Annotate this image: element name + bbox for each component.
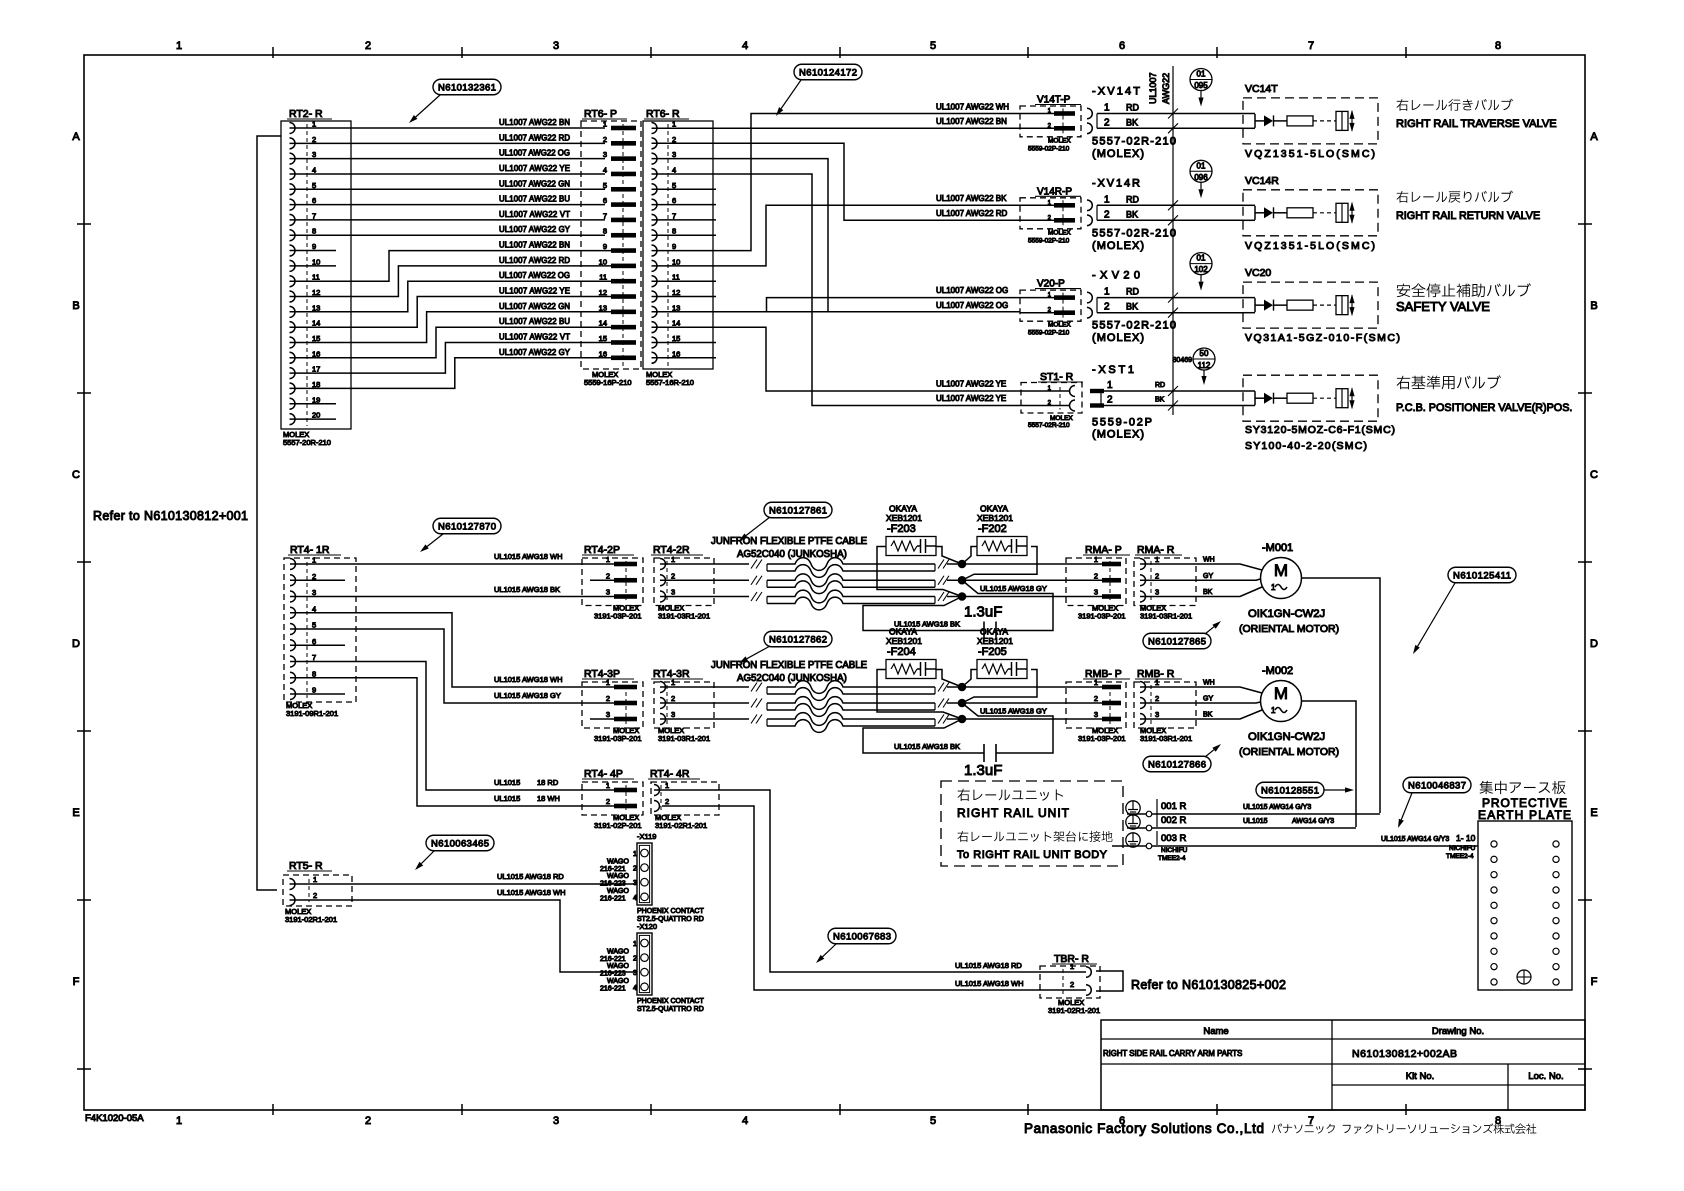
svg-text:N610127866: N610127866 — [1148, 759, 1206, 770]
svg-text:RMB- P: RMB- P — [1085, 668, 1122, 680]
RT6-R pin16 stub — [652, 357, 717, 359]
right rail unit label — [957, 789, 1070, 820]
svg-text:UL1007 AWG22 GY: UL1007 AWG22 GY — [499, 225, 571, 234]
ground wire 001 R — [1126, 799, 1380, 817]
cable wire at y=687 — [660, 686, 749, 688]
svg-text:V20-P: V20-P — [1037, 279, 1065, 290]
svg-text:-F204: -F204 — [887, 646, 916, 658]
svg-text:1.3uF: 1.3uF — [964, 604, 1002, 621]
filter -F202 — [977, 504, 1027, 556]
svg-text:OKAYA: OKAYA — [980, 504, 1008, 514]
svg-text:VC14R: VC14R — [1245, 175, 1279, 187]
svg-text:4: 4 — [742, 40, 748, 52]
svg-text:ST2.5-QUATTRO RD: ST2.5-QUATTRO RD — [637, 1006, 704, 1013]
protective earth plate — [1478, 781, 1572, 990]
svg-text:WH: WH — [1203, 680, 1215, 687]
svg-text:MOLEX: MOLEX — [1048, 137, 1071, 144]
svg-text:3191-02R1-201: 3191-02R1-201 — [1048, 1006, 1100, 1015]
svg-text:4: 4 — [672, 165, 676, 174]
svg-text:VQZ1351-5LO(SMC): VQZ1351-5LO(SMC) — [1245, 148, 1375, 160]
svg-text:Name: Name — [1203, 1026, 1228, 1037]
svg-text:1: 1 — [672, 120, 676, 129]
cable wire at y=580.25 — [660, 579, 749, 581]
wire RT5-R pin2 to X120 — [290, 900, 638, 972]
svg-text:N610067683: N610067683 — [833, 931, 891, 942]
svg-text:E: E — [72, 807, 79, 819]
svg-text:BK: BK — [1155, 397, 1165, 404]
svg-text:1: 1 — [1155, 555, 1159, 564]
svg-text:F: F — [73, 976, 80, 988]
oval N610128551 — [1256, 782, 1324, 798]
svg-text:216-221: 216-221 — [600, 866, 626, 873]
svg-text:11: 11 — [312, 273, 320, 282]
wire RT2 shell to RT5-R — [257, 136, 281, 890]
oval N610046837 — [1403, 777, 1471, 793]
valve name — [1396, 191, 1540, 222]
svg-text:P.C.B. POSITIONER VALVE(R)POS.: P.C.B. POSITIONER VALVE(R)POS. — [1396, 402, 1572, 414]
svg-text:2: 2 — [1094, 694, 1098, 703]
svg-text:VC14T: VC14T — [1245, 83, 1278, 95]
svg-text:2: 2 — [633, 866, 637, 873]
valve name — [1396, 375, 1572, 414]
svg-text:OIK1GN-CW2J: OIK1GN-CW2J — [1248, 731, 1325, 743]
svg-text:UL1015 AWG18 GY: UL1015 AWG18 GY — [980, 584, 1047, 593]
RT4-2P stub pin — [590, 579, 614, 581]
border frame — [84, 55, 1585, 1110]
svg-text:3: 3 — [312, 588, 316, 597]
svg-text:(ORIENTAL MOTOR): (ORIENTAL MOTOR) — [1239, 746, 1339, 758]
svg-text:3: 3 — [1094, 588, 1098, 597]
svg-text:RD: RD — [1126, 287, 1139, 297]
wires RT2 pins11-18 to RT6-P pins9-16 — [290, 251, 612, 282]
svg-text:5: 5 — [672, 181, 676, 190]
svg-text:UL1007 AWG22 VT: UL1007 AWG22 VT — [499, 332, 570, 341]
svg-text:5557-02R-210: 5557-02R-210 — [1028, 422, 1070, 429]
svg-text:MOLEX: MOLEX — [1050, 415, 1073, 422]
RT4-3P stub pin — [590, 718, 614, 720]
svg-text:RT2- R: RT2- R — [289, 108, 323, 120]
svg-text:OKAYA: OKAYA — [889, 627, 917, 637]
svg-text:14: 14 — [312, 319, 320, 328]
svg-text:10: 10 — [312, 257, 320, 266]
RT2-R pin19 stub — [290, 403, 337, 405]
svg-text:10: 10 — [672, 257, 680, 266]
title block — [1101, 1020, 1585, 1110]
connector V20-P — [1020, 279, 1081, 337]
svg-text:6: 6 — [312, 196, 316, 205]
svg-text:(MOLEX): (MOLEX) — [1092, 148, 1144, 160]
svg-text:18: 18 — [312, 380, 320, 389]
svg-text:N610127870: N610127870 — [438, 521, 496, 532]
svg-text:9: 9 — [603, 242, 607, 251]
connector RMA- P — [1066, 544, 1130, 621]
wire RT4-1R pin3 to RT4-2P pin3 — [290, 596, 614, 598]
cable wire at y=719 — [660, 718, 749, 720]
svg-text:4: 4 — [633, 985, 637, 992]
svg-text:3: 3 — [606, 710, 610, 719]
svg-text:RIGHT RAIL TRAVERSE VALVE: RIGHT RAIL TRAVERSE VALVE — [1396, 118, 1557, 130]
svg-text:3191-03R1-201: 3191-03R1-201 — [658, 734, 710, 743]
svg-text:112: 112 — [1198, 361, 1211, 370]
svg-text:UL1007 AWG22 YE: UL1007 AWG22 YE — [499, 164, 570, 173]
svg-text:M: M — [1274, 684, 1288, 703]
footer company — [1024, 1121, 1536, 1136]
svg-text:(MOLEX): (MOLEX) — [1092, 332, 1144, 344]
svg-text:UL1007 AWG22 OG: UL1007 AWG22 OG — [936, 286, 1008, 295]
svg-text:5557-16R-210: 5557-16R-210 — [646, 378, 694, 387]
svg-text:1: 1 — [1094, 678, 1098, 687]
svg-text:2: 2 — [312, 572, 316, 581]
svg-text:5559-16P-210: 5559-16P-210 — [584, 378, 632, 387]
svg-text:2: 2 — [671, 571, 675, 580]
filter -F204 — [886, 627, 936, 679]
svg-text:XEB1201: XEB1201 — [977, 513, 1013, 523]
svg-text:UL1015 AWG18 RD: UL1015 AWG18 RD — [955, 961, 1022, 970]
svg-text:XEB1201: XEB1201 — [886, 513, 922, 523]
indicator circle 01/096 — [1190, 160, 1212, 198]
svg-text:RD: RD — [1126, 194, 1139, 204]
RT4-1R pin6 stub — [290, 644, 345, 646]
RT6-R pin8 stub — [652, 234, 717, 236]
connector V14R-P — [1020, 186, 1081, 244]
oval N610132361 — [433, 79, 501, 95]
svg-text:216-221: 216-221 — [600, 985, 626, 992]
svg-text:UL1007 AWG22 OG: UL1007 AWG22 OG — [499, 271, 570, 280]
svg-text:102: 102 — [1194, 265, 1208, 274]
svg-text:UL1007 AWG22 GN: UL1007 AWG22 GN — [499, 302, 570, 311]
svg-text:A: A — [1590, 131, 1598, 143]
svg-text:5557-02R-210: 5557-02R-210 — [1092, 135, 1176, 147]
valve symbol at y=305.15 — [1255, 294, 1355, 316]
svg-text:1: 1 — [606, 781, 610, 790]
svg-text:2: 2 — [1155, 694, 1159, 703]
svg-text:1: 1 — [1094, 555, 1098, 564]
svg-text:16: 16 — [599, 349, 607, 358]
oval N610127861 — [764, 502, 832, 518]
svg-text:RT6- P: RT6- P — [584, 108, 617, 120]
svg-text:N610132361: N610132361 — [438, 82, 496, 93]
svg-text:2: 2 — [1094, 571, 1098, 580]
svg-text:V14T-P: V14T-P — [1037, 95, 1071, 106]
svg-text:7: 7 — [1308, 40, 1314, 52]
svg-text:15: 15 — [599, 334, 607, 343]
svg-text:XEB1201: XEB1201 — [886, 636, 922, 646]
svg-text:AWG22: AWG22 — [1161, 73, 1171, 104]
svg-text:11: 11 — [672, 273, 680, 282]
svg-text:PHOENIX CONTACT: PHOENIX CONTACT — [637, 998, 704, 1005]
connector RT6-R — [643, 108, 713, 387]
svg-text:3: 3 — [671, 710, 675, 719]
svg-text:5559-02P-210: 5559-02P-210 — [1028, 330, 1070, 337]
svg-text:UL1015 AWG18 WH: UL1015 AWG18 WH — [955, 979, 1024, 988]
svg-text:1: 1 — [633, 851, 637, 858]
svg-text:1: 1 — [1104, 194, 1110, 205]
oval N610127866 — [1143, 756, 1211, 772]
svg-text:C: C — [72, 469, 80, 481]
svg-text:UL1007 AWG22 BU: UL1007 AWG22 BU — [499, 195, 570, 204]
oval N610124172 — [794, 64, 862, 80]
svg-text:8: 8 — [603, 227, 607, 236]
filter connections — [877, 547, 962, 597]
svg-text:15: 15 — [672, 334, 680, 343]
svg-text:WAGO: WAGO — [607, 888, 629, 895]
svg-text:1: 1 — [1107, 380, 1113, 391]
cable wire at y=596.5 — [660, 596, 749, 598]
svg-text:6: 6 — [1119, 40, 1125, 52]
svg-text:UL1007 AWG22 WH: UL1007 AWG22 WH — [936, 103, 1009, 112]
svg-text:N610127862: N610127862 — [769, 634, 827, 645]
svg-text:30469: 30469 — [1173, 357, 1193, 364]
svg-text:Panasonic Factory Solutions Co: Panasonic Factory Solutions Co.,Ltd — [1024, 1121, 1264, 1136]
svg-text:3: 3 — [312, 150, 316, 159]
svg-text:1: 1 — [1155, 678, 1159, 687]
svg-text:5559-02P-210: 5559-02P-210 — [1028, 145, 1070, 152]
oval N610127862 — [764, 631, 832, 647]
svg-text:3191-02R1-201: 3191-02R1-201 — [285, 915, 337, 924]
svg-text:3: 3 — [553, 40, 559, 52]
svg-text:1: 1 — [606, 678, 610, 687]
svg-text:5: 5 — [312, 621, 316, 630]
connector RT4-3R — [651, 668, 714, 743]
M001 output wire — [1302, 578, 1381, 813]
svg-text:(MOLEX): (MOLEX) — [1092, 240, 1144, 252]
svg-text:RIGHT RAIL RETURN VALVE: RIGHT RAIL RETURN VALVE — [1396, 210, 1540, 222]
right rail unit dashed box — [941, 781, 1123, 866]
svg-text:UL1007 AWG22 BN: UL1007 AWG22 BN — [936, 117, 1007, 126]
socket -XV14R — [1087, 177, 1176, 252]
svg-text:1: 1 — [1104, 287, 1110, 298]
svg-text:NICHIFU: NICHIFU — [1161, 847, 1188, 854]
svg-text:2: 2 — [671, 694, 675, 703]
svg-text:3: 3 — [1155, 710, 1159, 719]
svg-text:RD: RD — [1155, 382, 1165, 389]
svg-text:N610124172: N610124172 — [799, 67, 857, 78]
svg-text:RT4- 4R: RT4- 4R — [650, 768, 690, 780]
svg-text:13: 13 — [599, 303, 607, 312]
svg-text:4: 4 — [633, 895, 637, 902]
svg-text:1: 1 — [1271, 706, 1276, 715]
svg-text:003 R: 003 R — [1161, 833, 1186, 844]
oval N610067683 — [828, 928, 896, 944]
svg-text:8: 8 — [312, 669, 316, 678]
junction dots — [958, 560, 967, 569]
svg-text:1: 1 — [603, 120, 607, 129]
svg-text:14: 14 — [672, 319, 680, 328]
wire RT4-4R pin2 to TBR-R pin2 — [662, 806, 1086, 990]
svg-text:M: M — [1274, 561, 1288, 580]
earth plate ground mark — [1517, 970, 1531, 984]
svg-text:EARTH PLATE: EARTH PLATE — [1478, 808, 1571, 822]
svg-text:15: 15 — [312, 334, 320, 343]
svg-text:RT4-3P: RT4-3P — [584, 668, 620, 680]
svg-text:2: 2 — [672, 135, 676, 144]
svg-text:PHOENIX CONTACT: PHOENIX CONTACT — [637, 908, 704, 915]
svg-text:OKAYA: OKAYA — [889, 504, 917, 514]
svg-text:1: 1 — [313, 875, 317, 884]
svg-text:-XST1: -XST1 — [1092, 364, 1134, 376]
svg-text:002 R: 002 R — [1161, 815, 1186, 826]
svg-text:-XV14T: -XV14T — [1092, 86, 1140, 98]
svg-text:XEB1201: XEB1201 — [977, 636, 1013, 646]
svg-text:GY: GY — [1203, 573, 1213, 580]
svg-text:B: B — [1590, 300, 1597, 312]
svg-text:3: 3 — [1094, 710, 1098, 719]
indicator circle 50/112 — [1173, 348, 1215, 385]
svg-text:-M002: -M002 — [1262, 665, 1293, 677]
motor -M002 — [1239, 665, 1339, 758]
svg-text:17: 17 — [312, 365, 320, 374]
TBR-R bracket — [1096, 971, 1123, 991]
motor -M001 — [1239, 542, 1339, 635]
svg-text:2: 2 — [1104, 117, 1110, 128]
svg-text:UL1007 AWG22 GY: UL1007 AWG22 GY — [499, 348, 571, 357]
svg-text:50: 50 — [1200, 349, 1209, 358]
svg-text:3: 3 — [606, 588, 610, 597]
wire RT5-R pin1 to X119 — [290, 883, 638, 885]
wire to valve — [1097, 297, 1243, 299]
terminal -X119 — [600, 832, 704, 923]
ground wire 002 R — [1126, 813, 1356, 831]
connector RT4-2P — [582, 544, 643, 621]
wire RT4-4R pin1 to TBR-R pin1 — [654, 790, 1086, 972]
svg-text:D: D — [72, 638, 80, 650]
svg-text:UL1007 AWG22 OG: UL1007 AWG22 OG — [936, 301, 1008, 310]
oval N610127865 — [1143, 633, 1211, 649]
svg-text:5559-02P-210: 5559-02P-210 — [1028, 237, 1070, 244]
svg-text:OKAYA: OKAYA — [980, 627, 1008, 637]
svg-text:RIGHT RAIL UNIT: RIGHT RAIL UNIT — [957, 806, 1070, 820]
plug -XST1 — [1090, 364, 1165, 441]
svg-text:16: 16 — [672, 349, 680, 358]
wires to RM connector — [962, 686, 1102, 688]
vertical wire bundle line UL1007 AWG22 — [1172, 66, 1174, 415]
svg-text:RT4-2P: RT4-2P — [584, 544, 620, 556]
junction dots — [958, 683, 967, 692]
svg-text:12: 12 — [672, 288, 680, 297]
connector TBR-R — [1040, 953, 1100, 1015]
svg-text:14: 14 — [599, 319, 607, 328]
svg-text:RT6- R: RT6- R — [646, 108, 680, 120]
svg-text:-F205: -F205 — [978, 646, 1007, 658]
indicator circle 01/095 — [1190, 69, 1212, 107]
svg-text:3: 3 — [633, 970, 637, 977]
svg-text:3191-03P-201: 3191-03P-201 — [1078, 734, 1126, 743]
svg-text:2: 2 — [1155, 571, 1159, 580]
svg-text:JUNFRON FLEXIBLE PTFE CABLE: JUNFRON FLEXIBLE PTFE CABLE — [711, 660, 868, 671]
connector RT4- 4P — [582, 768, 643, 830]
svg-text:2: 2 — [603, 135, 607, 144]
svg-text:UL1007 AWG22 YE: UL1007 AWG22 YE — [936, 380, 1006, 389]
svg-text:UL1015 AWG18 WH: UL1015 AWG18 WH — [497, 888, 566, 897]
svg-text:1- 10: 1- 10 — [1456, 833, 1476, 843]
svg-text:8: 8 — [672, 227, 676, 236]
svg-text:UL1015 AWG14 G/Y3: UL1015 AWG14 G/Y3 — [1243, 804, 1311, 811]
svg-text:TMEE2-4: TMEE2-4 — [1158, 855, 1186, 862]
valve symbol at y=212.8 — [1255, 202, 1355, 224]
svg-text:7: 7 — [1308, 1115, 1314, 1127]
svg-text:BK: BK — [1203, 712, 1213, 719]
svg-text:7: 7 — [312, 653, 316, 662]
wires RT6-R to valve connectors — [652, 127, 1021, 129]
svg-text:1: 1 — [606, 555, 610, 564]
svg-text:11: 11 — [599, 273, 607, 282]
svg-text:GY: GY — [1203, 696, 1213, 703]
svg-text:3: 3 — [553, 1115, 559, 1127]
svg-text:OIK1GN-CW2J: OIK1GN-CW2J — [1248, 608, 1325, 620]
svg-text:3191-09R1-201: 3191-09R1-201 — [286, 709, 338, 718]
svg-text:VC20: VC20 — [1245, 267, 1271, 279]
svg-text:Kit No.: Kit No. — [1406, 1071, 1435, 1082]
svg-text:2: 2 — [312, 135, 316, 144]
svg-text:N610125411: N610125411 — [1453, 570, 1511, 581]
svg-text:3: 3 — [603, 150, 607, 159]
svg-text:UL1015 AWG14 G/Y3: UL1015 AWG14 G/Y3 — [1381, 836, 1449, 843]
svg-text:2: 2 — [606, 797, 610, 806]
svg-text:4: 4 — [742, 1115, 748, 1127]
svg-text:Refer to N610130812+001: Refer to N610130812+001 — [93, 509, 248, 523]
RT2-R pin20 stub — [290, 418, 337, 420]
svg-text:WH: WH — [1203, 557, 1215, 564]
indicator circle 01/102 — [1190, 253, 1212, 291]
RT6-R pin11 stub — [652, 280, 717, 282]
svg-text:3191-03P-201: 3191-03P-201 — [594, 734, 642, 743]
svg-text:Loc. No.: Loc. No. — [1528, 1071, 1563, 1082]
svg-text:VQZ1351-5LO(SMC): VQZ1351-5LO(SMC) — [1245, 240, 1375, 252]
svg-text:12: 12 — [312, 288, 320, 297]
svg-text:1.3uF: 1.3uF — [964, 762, 1002, 779]
connector RT5-R — [283, 860, 352, 924]
svg-text:UL1015 AWG18 GY: UL1015 AWG18 GY — [494, 691, 561, 700]
svg-text:7: 7 — [312, 211, 316, 220]
filter connections — [877, 670, 962, 720]
svg-text:2: 2 — [665, 797, 669, 806]
valve VC20 — [1243, 267, 1400, 344]
svg-text:13: 13 — [672, 303, 680, 312]
svg-text:1: 1 — [1104, 103, 1110, 114]
svg-text:N610130812+002AB: N610130812+002AB — [1352, 1048, 1457, 1060]
RT6-R pin5 stub — [652, 188, 717, 190]
svg-text:To RIGHT RAIL UNIT BODY: To RIGHT RAIL UNIT BODY — [957, 849, 1108, 861]
wires to PCB positioner valve — [1104, 390, 1255, 392]
svg-text:6: 6 — [672, 196, 676, 205]
valve name — [1396, 99, 1557, 130]
svg-text:WAGO: WAGO — [607, 949, 629, 956]
svg-text:WAGO: WAGO — [607, 963, 629, 970]
svg-text:MOLEX: MOLEX — [1048, 229, 1071, 236]
wires RT2 pins1-8 to RT6-P pins1-8 — [290, 127, 606, 129]
wire RT4-1R pin1 to RT4-2P pin1 — [290, 563, 614, 565]
svg-text:BK: BK — [1126, 302, 1138, 312]
svg-text:20: 20 — [312, 411, 320, 420]
svg-text:-XV14R: -XV14R — [1092, 177, 1140, 189]
svg-text:UL1015 AWG18 RD: UL1015 AWG18 RD — [497, 872, 564, 881]
svg-text:2: 2 — [1104, 302, 1110, 313]
connector V14T-P — [1020, 95, 1081, 153]
svg-text:5: 5 — [603, 181, 607, 190]
svg-text:5: 5 — [930, 40, 936, 52]
svg-text:3: 3 — [671, 588, 675, 597]
valve name — [1396, 283, 1531, 314]
svg-text:UL1007 AWG22 RD: UL1007 AWG22 RD — [499, 133, 570, 142]
svg-text:B: B — [72, 300, 79, 312]
RT6-R pin15 stub — [652, 341, 717, 343]
connector RMB- R — [1134, 668, 1215, 743]
svg-text:5557-20R-210: 5557-20R-210 — [283, 438, 331, 447]
svg-text:6: 6 — [312, 637, 316, 646]
svg-text:3191-02P-201: 3191-02P-201 — [594, 821, 642, 830]
svg-text:WAGO: WAGO — [607, 873, 629, 880]
svg-text:N610127865: N610127865 — [1148, 636, 1206, 647]
